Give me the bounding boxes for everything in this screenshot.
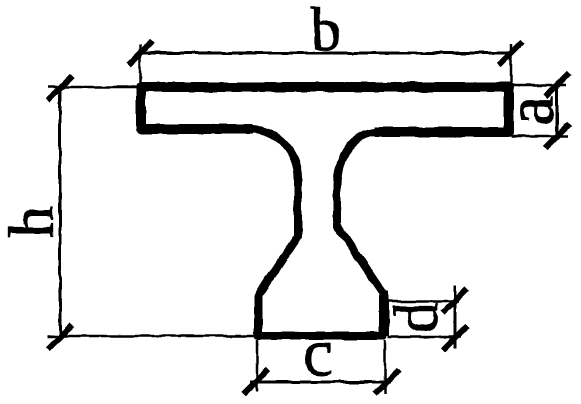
dimension h tick bottom [48,325,72,349]
dimension a tick bottom [545,124,569,148]
dimension c extension line left [256,340,259,391]
dimension a extension line bottom [512,135,568,138]
dimension b extension line right [510,44,513,87]
svg-text:a: a [492,96,568,126]
dimension h line [59,87,62,337]
dimension b tick right [499,41,523,65]
foot right edge (heavier) [379,291,389,336]
dimension h extension line bottom [47,335,260,338]
svg-text:d: d [383,302,451,333]
T-beam flange outline [141,87,509,132]
dimension a line [556,85,559,136]
dimension a tick top [545,73,569,97]
dimension d tick bottom [443,326,467,350]
dimension d tick top [443,289,467,313]
T-beam web and foot outline [251,129,383,336]
dimension d line [454,286,457,349]
dimension a extension line top [512,84,566,87]
svg-text:h: h [0,206,67,238]
dimension c tick right [375,370,399,394]
dimension d extension line top [387,300,459,303]
svg-text:c: c [303,314,333,390]
dimension h extension line top [47,86,141,89]
dimension c tick left [244,370,268,394]
dimension c line [250,381,391,384]
dimension c extension line right [384,340,387,394]
dimension b extension line left [139,44,142,87]
svg-text:b: b [311,0,342,64]
dimension b tick left [128,41,152,65]
dimension b line [140,52,511,55]
dimension h tick top [48,76,72,100]
dimension d extension line bottom [388,336,461,339]
